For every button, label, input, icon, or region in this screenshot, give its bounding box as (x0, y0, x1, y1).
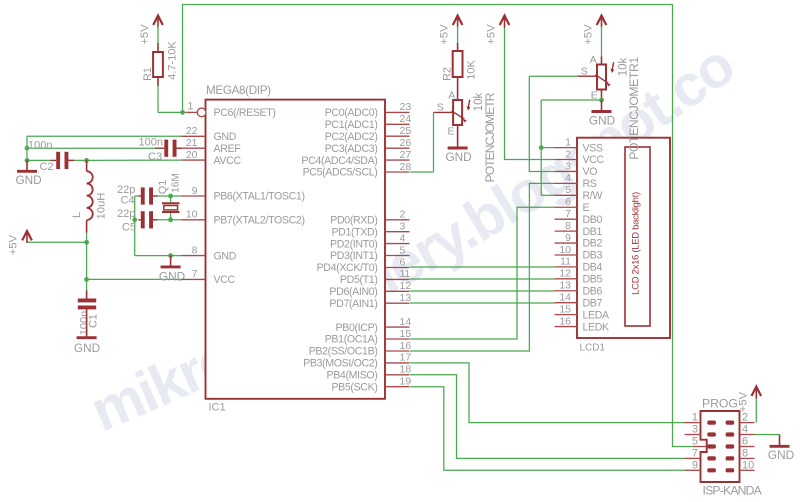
pin 10 LCD DB3 (555, 244, 603, 262)
wire net MISO (MCU pin18 to ISP pin7) (410, 375, 685, 459)
capacitor C1 100n (78, 291, 100, 336)
svg-text:8: 8 (192, 244, 198, 256)
svg-text:13: 13 (559, 280, 571, 292)
svg-text:IC1: IC1 (209, 402, 226, 414)
pin 25 PC2(ADC2) (325, 125, 412, 143)
svg-text:PD1(TXD): PD1(TXD) (331, 226, 377, 238)
svg-text:DB4: DB4 (583, 262, 603, 274)
pin 20 AVCC (182, 149, 242, 167)
svg-text:DB2: DB2 (583, 238, 603, 250)
svg-text:27: 27 (400, 149, 412, 161)
junction GND pin8 node (168, 253, 173, 258)
svg-text:24: 24 (400, 113, 412, 125)
pin 3 ISP left pad (685, 424, 716, 437)
svg-text:LCD 2x16 (LED backlight): LCD 2x16 (LED backlight) (630, 192, 641, 295)
pin 6 ISP right pad (726, 436, 755, 449)
svg-text:100n: 100n (28, 140, 52, 152)
pin 4 PD2(INT0) (330, 232, 409, 250)
svg-text:S: S (437, 102, 444, 114)
pin 23 PC0(ADC0) (325, 101, 412, 119)
resistor R2 (441, 43, 477, 100)
svg-text:PD0(RXD): PD0(RXD) (330, 215, 377, 227)
svg-text:PC0(ADC0): PC0(ADC0) (325, 107, 378, 119)
wire net +5V left (to AVCC filter and VCC pin7) (27, 233, 182, 291)
pin 7 LCD DB0 (555, 208, 603, 226)
svg-text:16: 16 (559, 315, 571, 327)
capacitor C4 22p (117, 184, 158, 207)
svg-text:R2: R2 (441, 67, 453, 81)
svg-text:7: 7 (192, 268, 198, 280)
pin 5 PD3(INT1) (330, 244, 409, 262)
wire net DB5 (MCU PD5 to LCD pin12) (410, 278, 555, 280)
svg-text:MEGA8(DIP): MEGA8(DIP) (206, 84, 271, 97)
svg-text:PB1(OC1A): PB1(OC1A) (325, 334, 378, 346)
pin 2 ISP right pad (726, 412, 755, 425)
pin 14 PB0(ICP) (336, 316, 412, 334)
svg-text:PC6(/RESET): PC6(/RESET) (214, 107, 276, 119)
svg-text:18: 18 (400, 364, 412, 376)
svg-text:10: 10 (742, 459, 754, 471)
svg-text:ISP-KANDA: ISP-KANDA (703, 484, 763, 498)
pin 8 LCD DB1 (555, 220, 603, 238)
svg-text:20: 20 (186, 149, 198, 161)
supply +5V left (22, 231, 32, 240)
pin 4 LCD RS (555, 172, 597, 190)
svg-text:3: 3 (565, 160, 571, 172)
svg-text:VSS: VSS (583, 142, 603, 154)
pin 24 PC1(ADC1) (325, 113, 412, 131)
svg-text:21: 21 (186, 137, 198, 149)
wire net +5V at ISP pin2 (755, 399, 757, 423)
svg-text:4: 4 (742, 424, 748, 436)
svg-text:PB4(MISO): PB4(MISO) (326, 370, 377, 382)
svg-text:3: 3 (400, 221, 406, 233)
svg-text:+5V: +5V (439, 24, 451, 45)
svg-text:1: 1 (565, 136, 571, 148)
svg-text:PB7(XTAL2/TOSC2): PB7(XTAL2/TOSC2) (214, 215, 305, 227)
svg-text:PC1(ADC1): PC1(ADC1) (325, 119, 378, 131)
ground at MCU pin8 (170, 256, 172, 267)
pin 15 PB1(OC1A) (325, 328, 412, 346)
svg-text:9: 9 (692, 459, 698, 471)
svg-text:1: 1 (692, 412, 698, 424)
svg-text:PD5(T1): PD5(T1) (340, 274, 378, 286)
svg-text:GND: GND (159, 269, 185, 283)
wire net GND at ISP pin4 (755, 434, 780, 436)
svg-text:PROG: PROG (702, 397, 738, 411)
svg-text:1: 1 (187, 101, 193, 113)
svg-text:PC5(ADC5/SCL): PC5(ADC5/SCL) (303, 167, 378, 179)
svg-text:23: 23 (400, 101, 412, 113)
watermark (102, 72, 742, 432)
svg-text:C4: C4 (121, 195, 135, 207)
pin 19 PB5(SCK) (331, 376, 411, 394)
pin 22 GND (182, 125, 237, 143)
wire net XTAL1 (C4, crystal, MCU pin9) (135, 196, 182, 256)
svg-text:VO: VO (583, 166, 598, 178)
svg-text:C1: C1 (88, 314, 100, 328)
svg-text:7: 7 (692, 447, 698, 459)
svg-text:S: S (581, 65, 588, 77)
inductor L 10uH (71, 160, 108, 232)
svg-text:9: 9 (192, 185, 198, 197)
svg-text:6: 6 (565, 196, 571, 208)
svg-text:DB0: DB0 (583, 214, 603, 226)
svg-text:AVCC: AVCC (214, 155, 242, 167)
svg-text:PC2(ADC2): PC2(ADC2) (325, 131, 378, 143)
connector ISP-KANDA body (701, 397, 763, 498)
svg-text:A: A (590, 54, 597, 66)
wire net DB6 (MCU PD6 to LCD pin13) (410, 290, 555, 292)
supply +5V to LCD VCC (500, 16, 510, 25)
wire net +5V to LCD VCC pin2 (505, 26, 555, 160)
pin 16 LCD LEDK (555, 315, 610, 333)
svg-text:VCC: VCC (214, 274, 236, 286)
svg-text:4.7-10K: 4.7-10K (167, 41, 179, 80)
pin 12 PD6(AIN0) (329, 280, 411, 298)
svg-text:GND: GND (74, 341, 100, 355)
pin 7 ISP left pad (685, 447, 716, 460)
svg-text:PD2(INT0): PD2(INT0) (330, 238, 377, 250)
svg-text:PB5(SCK): PB5(SCK) (331, 381, 377, 393)
svg-text:RS: RS (583, 178, 597, 190)
junction LCD VSS node (539, 145, 544, 150)
pin 2 LCD VCC (555, 148, 605, 166)
supply +5V at POTENCJOMETR1 (582, 16, 606, 57)
pin 15 LCD LEDA (555, 303, 611, 321)
junction XTAL2 node (168, 217, 173, 222)
svg-text:PD4(XCK/T0): PD4(XCK/T0) (317, 262, 378, 274)
junction AREF tap (25, 146, 30, 151)
svg-text:E: E (583, 202, 590, 214)
supply +5V at ISP pin2 (752, 387, 762, 396)
pin 8 ISP right pad (726, 447, 755, 460)
svg-text:LEDK: LEDK (583, 321, 610, 333)
pin 3 PD1(TXD) (331, 221, 409, 239)
pin 8 GND (182, 244, 237, 262)
svg-text:25: 25 (400, 125, 412, 137)
svg-text:C3: C3 (148, 151, 162, 163)
pin 3 LCD VO (555, 160, 598, 178)
svg-text:PB2(SS/OC1B): PB2(SS/OC1B) (309, 346, 378, 358)
junction VCC pin7 branch (84, 277, 89, 282)
op-amp IC U1 microcontroller MEGA8(DIP) IC1 body (206, 84, 386, 414)
svg-text:+5V: +5V (738, 391, 750, 412)
svg-text:GND: GND (214, 250, 237, 262)
pin 12 LCD DB5 (555, 268, 603, 286)
svg-text:+5V: +5V (485, 24, 497, 45)
svg-text:PB3(MOSI/OC2): PB3(MOSI/OC2) (303, 358, 377, 370)
svg-text:16M: 16M (170, 173, 181, 193)
svg-text:LCD1: LCD1 (580, 343, 606, 354)
svg-text:DB7: DB7 (583, 297, 603, 309)
svg-text:DB3: DB3 (583, 250, 603, 262)
svg-text:6: 6 (742, 436, 748, 448)
pin 14 LCD DB7 (555, 291, 603, 309)
wire net XTAL2 (C5, crystal, MCU pin10) (156, 213, 181, 220)
svg-text:DB1: DB1 (583, 226, 603, 238)
svg-text:GND: GND (768, 448, 794, 462)
svg-text:L: L (71, 212, 83, 218)
svg-text:PD3(INT1): PD3(INT1) (330, 250, 377, 262)
ground at C2 (26, 160, 28, 171)
pin 9 PB6(XTAL1/TOSC1) (182, 185, 305, 203)
svg-text:+5V: +5V (139, 24, 151, 45)
svg-text:14: 14 (559, 291, 571, 303)
svg-text:DB6: DB6 (583, 285, 603, 297)
wire net SCK (MCU pin19 to ISP pin9) (410, 387, 685, 471)
svg-text:26: 26 (400, 137, 412, 149)
svg-text:PD6(AIN0): PD6(AIN0) (329, 286, 377, 298)
wire net ADC5 (pot wiper S to MCU pin28) (410, 112, 434, 172)
wire net RESET (R1 bottom to MCU pin1 and top rail to ISP pin5) (158, 5, 693, 447)
svg-text:+5V: +5V (7, 234, 19, 255)
pin 27 PC4(ADC4/SDA) (301, 149, 411, 167)
svg-text:4: 4 (400, 232, 406, 244)
svg-text:C5: C5 (122, 221, 136, 233)
pin 10 PB7(XTAL2/TOSC2) (182, 209, 305, 227)
svg-text:PC3(ADC3): PC3(ADC3) (325, 143, 378, 155)
wire net VO (pot1 wiper to LCD pin3) (529, 76, 577, 171)
svg-text:12: 12 (559, 268, 571, 280)
wire net GND LCD (pot1 E, LCD VSS pin1, R/W pin5) (541, 100, 601, 195)
svg-text:15: 15 (559, 303, 571, 315)
svg-text:4: 4 (565, 172, 571, 184)
wire net GND to MCU pin8 (135, 255, 182, 257)
svg-text:12: 12 (400, 280, 412, 292)
wire net DB4 (MCU PD4 to LCD pin11) (410, 266, 555, 268)
svg-text:100n: 100n (139, 137, 163, 149)
capacitor C3 100n (139, 137, 183, 163)
svg-text:19: 19 (400, 376, 412, 388)
pin 1 LCD VSS (555, 136, 603, 154)
svg-text:3: 3 (692, 424, 698, 436)
pin 7 VCC (182, 268, 236, 286)
svg-text:10: 10 (559, 244, 571, 256)
junction GND tap at C2 (25, 158, 30, 163)
svg-text:E: E (447, 125, 454, 137)
ground at ISP pin4 (779, 435, 781, 447)
svg-text:10K: 10K (465, 60, 477, 80)
wire net E (LCD pin6 to MCU PB1 pin15) (410, 207, 555, 339)
pin 18 PB4(MISO) (326, 364, 411, 382)
svg-text:C2: C2 (40, 161, 54, 173)
pin 1 ISP left pad (685, 412, 716, 425)
wire net DB7 (MCU PD7 to LCD pin14) (410, 302, 555, 304)
svg-text:8: 8 (565, 220, 571, 232)
svg-text:17: 17 (400, 352, 412, 364)
pin 6 LCD E (555, 196, 590, 214)
wire net GND left (MCU pin22, AREF cap, AVCC cap, GND symbol) (27, 136, 182, 160)
pin 9 ISP left pad (685, 459, 716, 472)
svg-text:6: 6 (400, 256, 406, 268)
svg-text:5: 5 (565, 184, 571, 196)
supply +5V at R2 (439, 16, 463, 45)
pin 11 LCD DB4 (555, 256, 603, 274)
potentiometer POTENCJOMETR (434, 90, 497, 183)
svg-text:5: 5 (692, 436, 698, 448)
svg-text:14: 14 (400, 316, 412, 328)
svg-text:11: 11 (560, 256, 571, 268)
svg-text:2: 2 (400, 209, 406, 221)
svg-text:22: 22 (186, 125, 198, 137)
pin 5 LCD R/W (555, 184, 603, 202)
svg-text:GND: GND (445, 150, 471, 164)
svg-text:16: 16 (400, 340, 412, 352)
svg-text:5: 5 (400, 244, 406, 256)
svg-text:11: 11 (400, 268, 411, 280)
svg-text:GND: GND (15, 173, 41, 187)
svg-text:2: 2 (565, 148, 571, 160)
svg-text:LEDA: LEDA (583, 309, 611, 321)
pin 2 PD0(RXD) (330, 209, 409, 227)
svg-text:GND: GND (589, 113, 615, 127)
svg-text:+5V: +5V (582, 24, 594, 45)
pin 13 PD7(AIN1) (329, 292, 411, 310)
svg-text:E: E (591, 90, 598, 102)
potentiometer POTENCJOMETR1 (578, 54, 630, 102)
svg-text:2: 2 (742, 412, 748, 424)
svg-text:PB0(ICP): PB0(ICP) (336, 322, 378, 334)
wire net RS (LCD pin4 to MCU PB2 pin16) (410, 183, 555, 351)
svg-text:10uH: 10uH (96, 193, 108, 220)
pin 26 PC3(ADC3) (325, 137, 412, 155)
svg-text:DB5: DB5 (583, 274, 603, 286)
svg-text:28: 28 (400, 161, 412, 173)
svg-text:R1: R1 (142, 67, 154, 81)
svg-text:PB6(XTAL1/TOSC1): PB6(XTAL1/TOSC1) (214, 191, 305, 203)
junction AVCC node (84, 158, 89, 163)
resistor R1 (142, 41, 179, 86)
svg-text:PD7(AIN1): PD7(AIN1) (329, 298, 377, 310)
svg-text:A: A (448, 90, 455, 102)
svg-text:22p: 22p (117, 208, 135, 220)
ground at POTENCJOMETR (457, 139, 459, 148)
ground at C1 (86, 309, 88, 337)
junction pot1 E node (599, 98, 604, 103)
capacitor C2 100n (28, 140, 74, 173)
svg-text:VCC: VCC (583, 154, 605, 166)
svg-text:PC4(ADC4/SDA): PC4(ADC4/SDA) (301, 155, 377, 167)
svg-text:13: 13 (400, 292, 412, 304)
svg-text:POTENCJOMETR: POTENCJOMETR (483, 92, 497, 182)
crystal Q1 16M (157, 173, 181, 212)
junction C5 left (132, 217, 137, 222)
svg-text:10: 10 (186, 209, 198, 221)
wire net MOSI (MCU pin17 to ISP pin1) (410, 363, 685, 423)
svg-text:GND: GND (214, 131, 237, 143)
junction XTAL1 node (168, 194, 173, 199)
svg-text:15: 15 (400, 328, 412, 340)
pin 10 ISP right pad (726, 459, 755, 472)
ground at POTENCJOMETR1 (601, 100, 603, 112)
pin 5 ISP left pad (692, 436, 716, 449)
pin 13 LCD DB6 (555, 280, 603, 298)
capacitor C5 22p (117, 208, 158, 234)
pin 17 PB3(MOSI/OC2) (303, 352, 411, 370)
pin 21 AREF (182, 137, 242, 155)
pin 11 PD5(T1) (340, 268, 411, 286)
pin 6 PD4(XCK/T0) (317, 256, 410, 274)
svg-text:Q1: Q1 (157, 180, 169, 194)
pin 4 ISP right pad (726, 424, 755, 437)
svg-text:8: 8 (742, 447, 748, 459)
svg-text:AREF: AREF (214, 143, 242, 155)
pin 9 LCD DB2 (555, 232, 603, 250)
junction node RESET (180, 110, 185, 115)
IC LCD1 display body (577, 138, 670, 354)
pin 16 PB2(SS/OC1B) (309, 340, 412, 358)
supply +5V at R1 (139, 16, 163, 45)
pin 28 PC5(ADC5/SCL) (303, 161, 412, 179)
svg-text:POTENCJOMETR1: POTENCJOMETR1 (627, 57, 641, 160)
svg-text:R/W: R/W (583, 190, 603, 202)
svg-text:9: 9 (565, 232, 571, 244)
junction +5V at inductor bottom (84, 240, 89, 245)
svg-text:7: 7 (565, 208, 571, 220)
pin 1 PC6(/RESET) with inversion bubble (186, 101, 276, 119)
